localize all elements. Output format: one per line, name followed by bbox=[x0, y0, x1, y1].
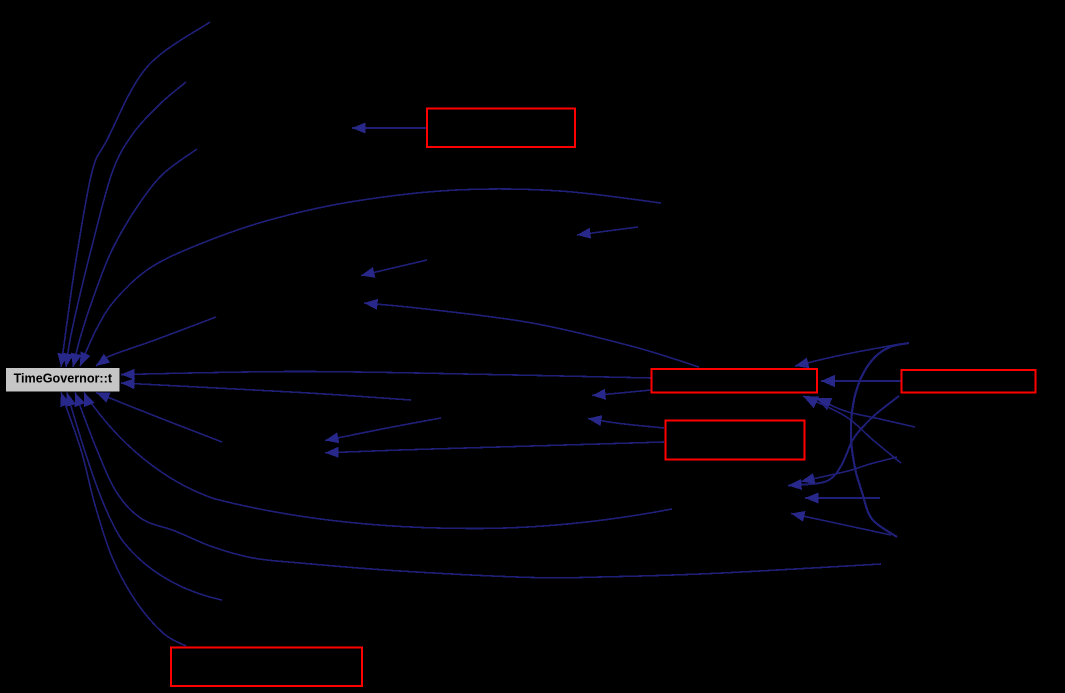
edge boxA -> hidden left small bbox=[592, 389, 651, 400]
edge hidden -> hidden node 6 bbox=[325, 418, 441, 443]
edge hidden-b4 -> TimeGovernor::t bbox=[65, 393, 222, 601]
svg-text:TimeGovernor::t: TimeGovernor::t bbox=[14, 372, 113, 386]
edge hidden-top2 -> TimeGovernor::t bbox=[63, 82, 186, 367]
edge hiddenG -> hiddenF 2 bbox=[801, 457, 897, 484]
edge hidden-right-arc -> TimeGovernor::t bbox=[80, 189, 661, 366]
red boxA (hidden caller label) bbox=[652, 369, 818, 393]
red boxB (hidden caller label) bbox=[902, 370, 1036, 393]
edge boxC -> hidden node 7 bbox=[588, 415, 664, 428]
edge hidden-b3 -> TimeGovernor::t (longest under-curve) bbox=[75, 393, 881, 578]
edge hiddenI -> hiddenF 4 bbox=[791, 511, 891, 535]
edge boxC -> hidden node 5 bbox=[325, 442, 664, 458]
red boxC (hidden caller label) bbox=[666, 421, 805, 460]
edge box1 -> hidden node bbox=[352, 123, 427, 134]
node TimeGovernor::t (current function, grey fill) bbox=[6, 368, 120, 392]
edge boxA -> TimeGovernor::t bbox=[121, 369, 651, 380]
edge boxB -> hiddenF (long bend) bbox=[788, 396, 899, 490]
edge hidden-b1 -> TimeGovernor::t bbox=[96, 392, 222, 442]
edge hidden-b2 -> TimeGovernor::t (long under-curve) bbox=[84, 393, 672, 529]
edge hidden -> hidden (small arrow) bbox=[577, 227, 638, 239]
edge boxA -> hidden node 4 bbox=[364, 299, 699, 367]
edge hidden-top3 -> TimeGovernor::t bbox=[71, 149, 197, 367]
edge hidden -> hidden (small arrow 2) bbox=[361, 260, 427, 278]
edge hidden-top1 -> TimeGovernor::t bbox=[57, 22, 210, 367]
edge hiddenJ -> boxA top-right (big swooping arc) bbox=[795, 343, 909, 537]
edge hidden-diag -> TimeGovernor::t bbox=[96, 317, 216, 366]
edge hiddenK -> boxA bottom-right 1 bbox=[816, 398, 915, 427]
red box5 (hidden caller label) bbox=[171, 648, 362, 687]
edge hidden-mid -> TimeGovernor::t bbox=[121, 378, 411, 400]
edge hiddenH -> hiddenF 3 bbox=[805, 493, 880, 504]
red box1 (hidden caller label) bbox=[427, 109, 575, 148]
edge hiddenL -> boxA bottom-right 2 bbox=[803, 396, 901, 463]
edge box5 -> TimeGovernor::t bbox=[60, 393, 186, 647]
edge boxB -> boxA bbox=[821, 375, 901, 387]
